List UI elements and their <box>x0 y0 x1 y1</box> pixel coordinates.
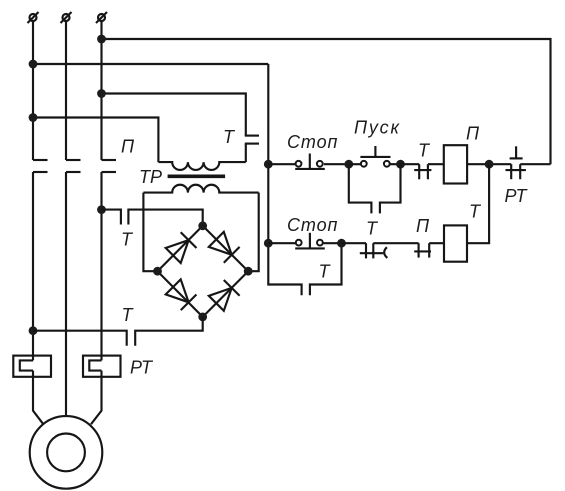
svg-text:Пуск: Пуск <box>354 118 401 138</box>
terminal phase B <box>61 12 72 23</box>
node row1 / row2 riser <box>485 160 494 169</box>
wire Stop row2 to node <box>323 242 341 244</box>
node bridge left <box>153 267 162 276</box>
wire phase A vertical <box>32 22 34 161</box>
motor M outer <box>30 416 103 489</box>
svg-text:РТ: РТ <box>505 186 529 206</box>
diode VD1 (left to top) <box>166 232 197 263</box>
wire contact P to coil T <box>429 242 444 244</box>
node bridge right <box>244 267 253 276</box>
node phase A / primary feed <box>29 113 38 122</box>
thermal relay heater PT phase C <box>83 356 121 377</box>
svg-text:П: П <box>466 124 480 144</box>
wire Pusk to contact T row1 <box>401 163 420 165</box>
node Pusk right <box>396 160 405 169</box>
transformer TP primary <box>158 162 245 170</box>
contact P (row2, NC) <box>414 243 431 257</box>
transformer TP core <box>168 175 226 179</box>
contact T row1 <box>414 164 431 179</box>
svg-text:Стоп: Стоп <box>287 215 338 235</box>
coil P <box>444 145 467 183</box>
contact T (time delay, row2) <box>360 243 388 258</box>
coil T <box>444 225 467 261</box>
svg-text:Т: Т <box>122 305 135 325</box>
svg-text:Т: Т <box>121 230 134 250</box>
button Stop row2 <box>295 233 325 249</box>
wire phase A to contact T (DC brake bottom) <box>33 331 127 346</box>
transformer TP secondary <box>143 185 258 193</box>
node bridge top <box>198 221 207 230</box>
svg-text:РТ: РТ <box>130 358 154 378</box>
wire phase B vertical <box>65 22 67 161</box>
wire transformer feed (phase A to primary left) <box>33 118 158 163</box>
contact T (parallel to Stop row2) <box>310 243 342 295</box>
svg-text:П: П <box>416 216 430 236</box>
wire secondary right to bridge <box>248 193 259 272</box>
wire phase A jog to motor <box>33 371 43 425</box>
contact P self-hold (below Pusk) <box>349 164 401 213</box>
contact T (DC brake top) <box>128 210 202 226</box>
diode VD3 (left to bottom) <box>166 279 197 310</box>
terminal phase C <box>96 12 107 23</box>
contact T (DC brake bottom) <box>135 317 203 346</box>
wire node to contact T delay <box>342 242 367 244</box>
wire row1 bus to Stop <box>268 163 295 165</box>
wire secondary left to bridge <box>143 193 157 272</box>
contact PT (thermal, NC) <box>506 146 526 179</box>
terminal phase A <box>28 12 39 23</box>
node Pusk left <box>344 160 353 169</box>
wire phase C to contact T (DC brake top) <box>102 210 121 225</box>
contact T (transformer primary, plate style) <box>245 136 259 163</box>
node phase A / bus feed <box>29 60 38 69</box>
wire transformer feed (phase C to contact T) <box>102 94 246 136</box>
contactor P main contact phase C <box>102 160 117 172</box>
button Pusk <box>349 146 401 167</box>
wire coil P to PT contact <box>467 163 511 165</box>
control bus left vertical <box>268 64 301 295</box>
wire row2 bus to Stop <box>268 242 296 244</box>
thermal relay heater PT phase A <box>13 356 51 377</box>
wire phase C lower <box>100 172 102 360</box>
svg-text:П: П <box>121 137 135 157</box>
contactor P main contact phase B <box>66 160 81 172</box>
wire Stop to Pusk <box>324 163 349 165</box>
wire phase C jog to motor <box>91 371 102 425</box>
node bridge DC bottom on phase A <box>29 326 38 335</box>
node bus row2 <box>264 239 273 248</box>
node bridge DC tap on phase C <box>97 205 106 214</box>
node bus row1 <box>264 160 273 169</box>
svg-text:Т: Т <box>469 202 482 222</box>
rectifier bridge edges <box>158 226 249 317</box>
wire coil T to riser <box>467 164 489 243</box>
contactor P main contact phase A <box>33 160 48 172</box>
wire T delay to contact P <box>373 242 418 244</box>
button Stop row1 <box>295 154 325 169</box>
wire PT contact to right rail <box>520 163 550 165</box>
svg-text:Т: Т <box>418 140 431 160</box>
svg-text:Т: Т <box>319 262 332 282</box>
diode VD2 (top to right) <box>209 232 240 263</box>
diode VD4 (bottom to right) <box>209 280 240 311</box>
svg-text:ТР: ТР <box>139 167 162 187</box>
motor M inner <box>47 434 85 472</box>
node phase C / top rail <box>97 35 106 44</box>
node bridge bottom <box>198 313 207 322</box>
node phase C / transformer feed <box>97 89 106 98</box>
svg-text:Т: Т <box>366 219 379 239</box>
node Stop row2 right <box>337 239 346 248</box>
wire control bus feed (phase A to left bus) <box>33 63 268 65</box>
svg-text:Т: Т <box>223 127 236 147</box>
wire phase B lower <box>65 172 67 416</box>
wire phase A lower <box>32 172 34 360</box>
wire control supply top (phase C to right rail) <box>102 39 551 164</box>
wire contact T to coil P <box>428 163 444 165</box>
wire phase C vertical <box>100 22 102 161</box>
svg-text:Стоп: Стоп <box>287 132 338 152</box>
